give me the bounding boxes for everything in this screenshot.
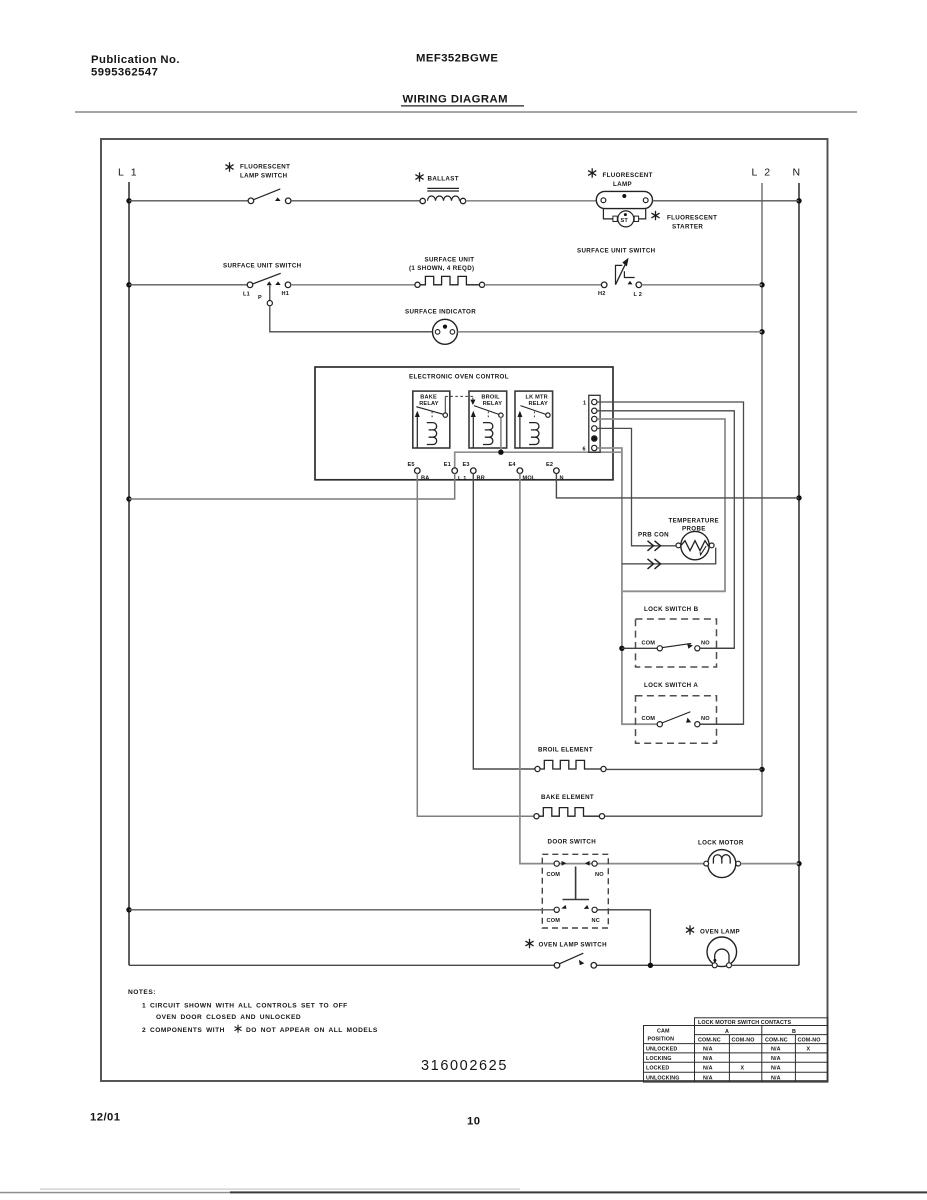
wire row2: L1 to surface unit switch bbox=[129, 284, 247, 286]
junction dots on L1 bus bbox=[126, 198, 131, 912]
svg-text:N: N bbox=[793, 167, 803, 179]
svg-text:N/A: N/A bbox=[703, 1047, 713, 1053]
asterisk for ballast bbox=[415, 172, 423, 181]
wire row1: lamp to N bbox=[653, 200, 800, 202]
wire row2: L2 terminal to L2 bus bbox=[642, 284, 762, 286]
svg-text:LOCK SWITCH A: LOCK SWITCH A bbox=[644, 682, 698, 689]
switch: lock switch A bbox=[642, 712, 711, 727]
asterisk in note 2 bbox=[235, 1025, 242, 1033]
svg-text:COM: COM bbox=[642, 716, 656, 722]
wire: surface indicator to L2 bus bbox=[458, 331, 763, 333]
connector J1 (6 pin) bbox=[589, 395, 600, 452]
svg-text:LOCK MOTOR: LOCK MOTOR bbox=[698, 840, 744, 847]
switch: fluorescent lamp switch S1 bbox=[248, 189, 291, 204]
svg-text:BROIL ELEMENT: BROIL ELEMENT bbox=[538, 747, 593, 754]
junction dots on L2 bus bbox=[759, 282, 764, 772]
svg-text:CAM: CAM bbox=[657, 1029, 670, 1035]
svg-text:10: 10 bbox=[467, 1116, 480, 1128]
svg-text:FLUORESCENT: FLUORESCENT bbox=[603, 172, 653, 179]
wire: broil contact drop to common wire bbox=[500, 417, 502, 452]
svg-text:E5: E5 bbox=[408, 462, 415, 468]
wire: lock switch B NO stub bbox=[700, 647, 734, 649]
svg-text:MEF352BGWE: MEF352BGWE bbox=[416, 53, 498, 65]
svg-text:SURFACE UNIT: SURFACE UNIT bbox=[425, 257, 475, 264]
svg-text:X: X bbox=[807, 1047, 811, 1053]
lock motor relay lever and contact bbox=[521, 406, 546, 415]
wire: pin2 to lock switch B NO bbox=[597, 411, 734, 649]
svg-text:LOCK SWITCH B: LOCK SWITCH B bbox=[644, 606, 699, 613]
bake relay dashed actuator link bbox=[431, 412, 433, 420]
svg-text:12/01: 12/01 bbox=[90, 1112, 121, 1124]
svg-text:1: 1 bbox=[583, 401, 586, 407]
junction dot broil contact on common wire bbox=[498, 450, 503, 455]
broil relay lever and contact bbox=[474, 406, 499, 415]
door switch upper contacts COM/NO bbox=[547, 861, 605, 878]
svg-text:SURFACE UNIT SWITCH: SURFACE UNIT SWITCH bbox=[223, 263, 302, 270]
wire row1: L1 to lamp switch bbox=[129, 200, 248, 202]
wire: broil element to L2 bus bbox=[606, 768, 762, 770]
svg-text:1 CIRCUIT SHOWN WITH ALL CONT: 1 CIRCUIT SHOWN WITH ALL CONTROLS SET TO… bbox=[142, 1003, 348, 1010]
wire row2: H1 to surface unit element bbox=[291, 284, 415, 286]
svg-text:2 COMPONENTS WITH: 2 COMPONENTS WITH bbox=[142, 1027, 225, 1034]
svg-text:FLUORESCENT: FLUORESCENT bbox=[240, 164, 290, 171]
svg-text:E3: E3 bbox=[463, 462, 470, 468]
broil relay dashed actuator link bbox=[487, 412, 489, 420]
wire: starter loop from lamp pins bbox=[603, 209, 645, 219]
wire: P to surface indicator row bbox=[270, 306, 433, 332]
wire row2: element to H2 bbox=[485, 284, 602, 286]
relay K3 lock motor relay box bbox=[515, 391, 553, 448]
oven lamp DS1 bbox=[707, 937, 737, 968]
wire: door switch NC down to oven lamp row bbox=[597, 910, 650, 966]
wire: oven lamp to N bus bottom corner bbox=[732, 964, 800, 966]
switch: oven lamp switch bbox=[554, 953, 596, 968]
svg-text:UNLOCKED: UNLOCKED bbox=[646, 1047, 677, 1053]
relay K1 bake relay box bbox=[413, 391, 450, 448]
svg-text:6: 6 bbox=[583, 447, 586, 453]
svg-text:STARTER: STARTER bbox=[672, 224, 703, 231]
ballast (inductor with core) bbox=[420, 188, 466, 203]
wire: P terminal drop bbox=[269, 286, 271, 301]
svg-text:N/A: N/A bbox=[703, 1056, 713, 1062]
wire: E5 drop to bake element bbox=[417, 474, 534, 817]
fluorescent starter bbox=[613, 211, 639, 227]
svg-text:N/A: N/A bbox=[771, 1056, 781, 1062]
junction dot lock switch B common bbox=[619, 646, 624, 651]
svg-text:BR: BR bbox=[477, 476, 485, 482]
svg-text:5995362547: 5995362547 bbox=[91, 67, 158, 79]
svg-text:COM-NO: COM-NO bbox=[732, 1038, 755, 1044]
svg-text:BROIL: BROIL bbox=[481, 395, 500, 401]
wire: L1 bottom to oven lamp switch bbox=[129, 964, 554, 966]
svg-text:BAKE: BAKE bbox=[420, 395, 437, 401]
svg-text:L1: L1 bbox=[243, 292, 250, 298]
svg-text:NO: NO bbox=[701, 640, 710, 646]
asterisk for fluorescent lamp bbox=[588, 168, 596, 177]
svg-text:LOCKED: LOCKED bbox=[646, 1066, 669, 1072]
wire: lock switch B common stub bbox=[622, 647, 657, 649]
svg-text:OVEN LAMP SWITCH: OVEN LAMP SWITCH bbox=[539, 942, 608, 949]
asterisk for fluorescent starter bbox=[651, 211, 659, 220]
chevron connectors PRB CON lower bbox=[648, 559, 661, 569]
broil element (square-wave heater) bbox=[535, 760, 606, 771]
EOC terminal E5 bbox=[415, 468, 421, 474]
wire: E1 to L1 bus bbox=[129, 474, 455, 500]
svg-text:N/A: N/A bbox=[703, 1076, 713, 1082]
svg-text:RELAY: RELAY bbox=[483, 401, 503, 407]
svg-text:SURFACE INDICATOR: SURFACE INDICATOR bbox=[405, 309, 476, 316]
door switch dashed enclosure bbox=[542, 854, 608, 928]
header horizontal rule bbox=[75, 111, 857, 113]
svg-text:ELECTRONIC OVEN CONTROL: ELECTRONIC OVEN CONTROL bbox=[409, 374, 509, 381]
wire: L1 to door switch lower common bbox=[129, 909, 554, 911]
EOC terminal E2 bbox=[554, 468, 560, 474]
svg-text:ST: ST bbox=[621, 218, 629, 224]
svg-text:L 1: L 1 bbox=[118, 167, 139, 179]
wire: pin4 to temperature probe left bbox=[597, 428, 676, 545]
wire: EOC internal common gray wire from E1 bbox=[455, 452, 622, 468]
wire: oven lamp switch to oven lamp bbox=[597, 964, 713, 966]
terminal P circle bbox=[267, 301, 272, 306]
asterisk for oven lamp bbox=[686, 925, 694, 934]
svg-text:E2: E2 bbox=[546, 462, 553, 468]
wire: pin6 down to lock switches common bbox=[597, 448, 657, 724]
svg-text:RELAY: RELAY bbox=[529, 401, 549, 407]
bake relay arm arrow (E5) bbox=[416, 415, 418, 448]
svg-text:Publication No.: Publication No. bbox=[91, 54, 180, 66]
chevron connectors PRB CON upper bbox=[648, 541, 661, 551]
svg-text:H1: H1 bbox=[282, 291, 290, 297]
svg-text:L 2: L 2 bbox=[752, 167, 773, 179]
asterisk for oven lamp switch bbox=[525, 939, 533, 948]
wire: pin3 loop around temperature probe bbox=[597, 419, 725, 591]
electronic oven control box U1 bbox=[315, 367, 613, 480]
svg-text:LK MTR: LK MTR bbox=[526, 395, 548, 401]
svg-text:OVEN DOOR CLOSED AND UNLOCKED: OVEN DOOR CLOSED AND UNLOCKED bbox=[156, 1014, 301, 1021]
svg-text:BAKE ELEMENT: BAKE ELEMENT bbox=[541, 794, 594, 801]
svg-text:A: A bbox=[725, 1029, 729, 1035]
wire: bake element to L2 bus end bbox=[605, 815, 762, 817]
svg-text:N/A: N/A bbox=[771, 1047, 781, 1053]
svg-text:SURFACE UNIT SWITCH: SURFACE UNIT SWITCH bbox=[577, 248, 656, 255]
svg-text:P: P bbox=[258, 295, 262, 301]
svg-text:L 2: L 2 bbox=[634, 292, 643, 298]
lock motor relay coil bbox=[529, 423, 539, 445]
svg-text:DO NOT APPEAR ON ALL MODELS: DO NOT APPEAR ON ALL MODELS bbox=[246, 1027, 378, 1034]
bake relay coil bbox=[427, 423, 437, 445]
svg-text:LOCK MOTOR SWITCH CONTACTS: LOCK MOTOR SWITCH CONTACTS bbox=[698, 1020, 791, 1026]
switch: lock switch B bbox=[642, 640, 711, 651]
mechanical link bake contact to broil relay (dashed) bbox=[444, 396, 446, 413]
lock motor relay arm arrow (E4) bbox=[519, 415, 521, 448]
svg-text:PRB CON: PRB CON bbox=[638, 532, 669, 539]
broil relay coil bbox=[483, 423, 493, 445]
svg-text:N: N bbox=[560, 476, 564, 482]
underline under WIRING DIAGRAM bbox=[401, 105, 524, 107]
svg-text:LAMP SWITCH: LAMP SWITCH bbox=[240, 173, 288, 180]
connector pin circles bbox=[592, 399, 597, 450]
junction dots on N bus bbox=[796, 198, 801, 866]
wire: lock motor to N bus bbox=[741, 863, 799, 865]
wire: N vertical bus bbox=[798, 183, 800, 965]
svg-text:NO: NO bbox=[595, 872, 604, 878]
svg-text:OVEN LAMP: OVEN LAMP bbox=[700, 929, 740, 936]
svg-text:NOTES:: NOTES: bbox=[128, 989, 156, 996]
wire: E3 drop to broil element bbox=[473, 474, 535, 770]
lock switch B dashed enclosure bbox=[636, 619, 717, 667]
svg-text:RELAY: RELAY bbox=[419, 401, 439, 407]
svg-text:COM-NC: COM-NC bbox=[765, 1038, 788, 1044]
door switch lower contacts COM/NC bbox=[547, 905, 600, 924]
wire: L2 vertical bus bbox=[761, 183, 763, 816]
EOC terminal E1 bbox=[452, 468, 458, 474]
wire: lock switch A NO stub bbox=[700, 723, 744, 725]
svg-text:L 1: L 1 bbox=[458, 476, 467, 482]
svg-text:B: B bbox=[792, 1029, 796, 1035]
door switch actuator bar bbox=[563, 867, 590, 900]
broil relay arm arrow (E3) bbox=[472, 415, 474, 448]
surface indicator light bbox=[433, 319, 458, 344]
svg-text:COM: COM bbox=[547, 872, 561, 878]
svg-text:E1: E1 bbox=[444, 462, 451, 468]
relay K2 broil relay box bbox=[469, 391, 507, 448]
svg-text:COM-NO: COM-NO bbox=[798, 1038, 821, 1044]
main diagram border frame bbox=[101, 139, 828, 1081]
svg-text:UNLOCKING: UNLOCKING bbox=[646, 1076, 680, 1082]
svg-text:MOL: MOL bbox=[523, 476, 536, 482]
wire row1: ballast to fluorescent lamp bbox=[466, 200, 597, 202]
svg-text:NC: NC bbox=[592, 918, 600, 924]
EOC terminal E3 bbox=[471, 468, 477, 474]
bake relay lever and contact bbox=[416, 407, 443, 415]
svg-text:TEMPERATURE: TEMPERATURE bbox=[669, 518, 720, 525]
switch: surface unit switch H2/L2 (infinite switch) bbox=[598, 258, 642, 298]
lock motor switch contacts table bbox=[644, 1018, 828, 1082]
fluorescent lamp body bbox=[596, 191, 652, 208]
svg-text:POSITION: POSITION bbox=[648, 1037, 675, 1043]
svg-text:COM: COM bbox=[547, 918, 561, 924]
svg-text:LAMP: LAMP bbox=[613, 181, 632, 188]
EOC terminal E4 bbox=[517, 468, 523, 474]
svg-text:FLUORESCENT: FLUORESCENT bbox=[667, 215, 717, 222]
svg-text:H2: H2 bbox=[598, 291, 606, 297]
svg-text:COM: COM bbox=[642, 640, 656, 646]
wire row1: switch to ballast bbox=[291, 200, 420, 202]
svg-text:COM-NC: COM-NC bbox=[698, 1038, 721, 1044]
svg-text:E4: E4 bbox=[509, 462, 517, 468]
svg-text:N/A: N/A bbox=[771, 1076, 781, 1082]
junction dot oven lamp row bbox=[648, 963, 653, 968]
wire: L1 vertical bus bbox=[128, 182, 130, 965]
wire: probe lower return bbox=[622, 548, 716, 564]
svg-text:N/A: N/A bbox=[771, 1066, 781, 1072]
svg-text:N/A: N/A bbox=[703, 1066, 713, 1072]
wire: E2 to N bus bbox=[556, 474, 799, 498]
svg-text:LOCKING: LOCKING bbox=[646, 1056, 672, 1062]
svg-text:NO: NO bbox=[701, 716, 710, 722]
wire: pin1 to lock switch A NO bbox=[597, 402, 743, 724]
svg-text:316002625: 316002625 bbox=[421, 1058, 508, 1074]
bake element (square-wave heater) bbox=[534, 808, 605, 819]
switch: surface unit switch L1/H1/P bbox=[243, 273, 291, 301]
surface unit element (square-wave heater) bbox=[415, 276, 485, 287]
svg-text:BA: BA bbox=[421, 476, 429, 482]
svg-text:(1 SHOWN, 4 REQD): (1 SHOWN, 4 REQD) bbox=[409, 265, 474, 272]
lock switch A dashed enclosure bbox=[636, 696, 717, 744]
wire: E4 drop to door switch / lock motor row bbox=[520, 474, 704, 864]
svg-text:BALLAST: BALLAST bbox=[428, 176, 459, 183]
lock motor M1 bbox=[704, 850, 741, 878]
bottom scan artifact line bbox=[230, 1191, 927, 1193]
svg-text:WIRING DIAGRAM: WIRING DIAGRAM bbox=[403, 94, 508, 106]
svg-text:X: X bbox=[741, 1066, 745, 1072]
temperature probe (thermistor in circle) bbox=[676, 531, 714, 559]
asterisk for fluorescent lamp switch bbox=[225, 162, 233, 171]
lock motor relay dashed actuator link bbox=[533, 412, 535, 420]
svg-text:DOOR SWITCH: DOOR SWITCH bbox=[548, 839, 597, 846]
